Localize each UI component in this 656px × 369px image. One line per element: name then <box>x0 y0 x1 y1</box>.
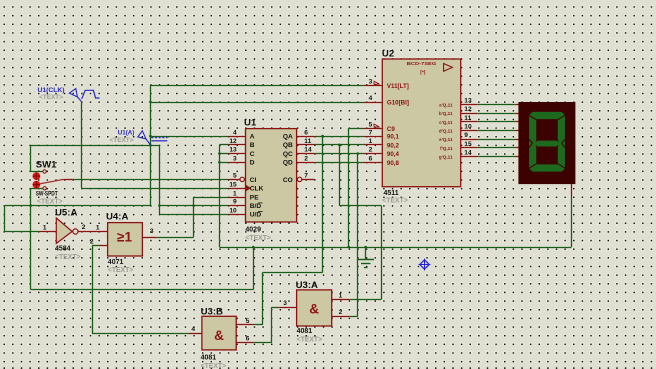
svg-text:<TEXT>: <TEXT> <box>39 94 63 101</box>
svg-text:13: 13 <box>464 98 472 105</box>
svg-text:C: C <box>250 151 255 158</box>
svg-text:90,2: 90,2 <box>387 142 400 149</box>
svg-text:e'Q,11: e'Q,11 <box>439 137 453 142</box>
svg-text:3: 3 <box>283 300 287 307</box>
svg-text:U3:B: U3:B <box>201 306 223 317</box>
svg-text:5: 5 <box>369 121 373 128</box>
svg-text:14: 14 <box>464 150 472 157</box>
svg-text:9: 9 <box>464 132 468 139</box>
svg-text:2: 2 <box>369 147 373 154</box>
svg-text:C9: C9 <box>387 126 395 133</box>
svg-text:4: 4 <box>369 95 373 102</box>
svg-text:2: 2 <box>82 224 86 231</box>
svg-text:U1(A): U1(A) <box>118 130 135 137</box>
svg-text:CI: CI <box>250 177 257 184</box>
svg-text:<TEXT>: <TEXT> <box>37 196 63 205</box>
svg-text:QA: QA <box>283 134 293 141</box>
svg-text:4: 4 <box>233 129 237 136</box>
svg-text:QC: QC <box>283 151 293 158</box>
svg-text:PE: PE <box>250 195 259 202</box>
svg-text:11: 11 <box>464 115 471 122</box>
svg-text:CO: CO <box>283 177 293 184</box>
svg-text:7: 7 <box>369 129 373 136</box>
svg-text:1: 1 <box>43 224 47 231</box>
svg-text:<TEXT>: <TEXT> <box>382 196 408 205</box>
svg-text:<TEXT>: <TEXT> <box>245 233 271 242</box>
svg-text:14: 14 <box>304 147 312 154</box>
svg-text:BCD-7SEG: BCD-7SEG <box>407 61 437 67</box>
svg-text:2: 2 <box>304 155 308 162</box>
svg-text:15: 15 <box>229 181 237 188</box>
svg-text:U/D: U/D <box>250 212 262 219</box>
svg-text:1: 1 <box>369 138 373 145</box>
svg-text:f'Q,11: f'Q,11 <box>440 146 453 151</box>
svg-text:QB: QB <box>283 142 293 149</box>
svg-text:G10[BI]: G10[BI] <box>387 100 409 107</box>
svg-text:a'Q,11: a'Q,11 <box>439 103 453 108</box>
svg-text:11: 11 <box>304 138 311 145</box>
svg-text:<TEXT>: <TEXT> <box>55 252 81 261</box>
svg-text:CLK: CLK <box>250 186 264 193</box>
svg-text:12: 12 <box>229 138 237 145</box>
svg-text:SW1: SW1 <box>36 159 57 170</box>
svg-text:U1: U1 <box>244 118 257 129</box>
svg-text:≥1: ≥1 <box>117 230 132 245</box>
svg-text:3: 3 <box>233 155 237 162</box>
svg-text:12: 12 <box>464 106 472 113</box>
svg-text:B: B <box>250 142 255 149</box>
svg-text:3: 3 <box>369 79 373 86</box>
svg-text:<TEXT>: <TEXT> <box>297 335 323 344</box>
svg-text:&: & <box>309 302 319 317</box>
svg-text:V11[LT]: V11[LT] <box>387 83 409 90</box>
svg-text:U2: U2 <box>382 49 394 60</box>
svg-text:7: 7 <box>304 173 308 180</box>
svg-text:&: & <box>214 328 224 343</box>
svg-text:6: 6 <box>369 155 373 162</box>
svg-text:d'Q,11: d'Q,11 <box>439 129 453 134</box>
svg-text:c'Q,11: c'Q,11 <box>439 120 453 125</box>
svg-text:6: 6 <box>246 336 250 343</box>
svg-text:2: 2 <box>339 309 343 316</box>
svg-text:1: 1 <box>233 190 237 197</box>
svg-text:U5:A: U5:A <box>55 208 77 219</box>
svg-text:90,4: 90,4 <box>387 151 400 158</box>
svg-text:90,1: 90,1 <box>387 134 400 141</box>
svg-text:10: 10 <box>464 124 472 131</box>
svg-text:13: 13 <box>229 147 237 154</box>
svg-text:9: 9 <box>233 199 237 206</box>
svg-text:<TEXT>: <TEXT> <box>110 137 134 144</box>
svg-text:U3:A: U3:A <box>296 280 318 291</box>
svg-text:5: 5 <box>246 318 250 325</box>
svg-text:4: 4 <box>191 326 195 333</box>
svg-text:1: 1 <box>96 224 100 231</box>
svg-text:10: 10 <box>229 207 237 214</box>
svg-text:g'Q,11: g'Q,11 <box>439 155 453 160</box>
svg-text:6: 6 <box>304 129 308 136</box>
svg-text:1: 1 <box>339 292 343 299</box>
svg-text:3: 3 <box>150 228 154 235</box>
svg-text:15: 15 <box>464 141 472 148</box>
svg-text:A: A <box>250 134 255 141</box>
svg-text:90,8: 90,8 <box>387 160 400 167</box>
svg-text:<TEXT>: <TEXT> <box>201 361 227 369</box>
svg-text:U4:A: U4:A <box>106 211 128 222</box>
svg-text:B/D: B/D <box>250 203 262 210</box>
svg-text:D: D <box>250 160 255 167</box>
svg-text:5: 5 <box>233 173 237 180</box>
svg-text:<TEXT>: <TEXT> <box>108 265 134 274</box>
svg-text:[*]: [*] <box>420 70 425 76</box>
svg-text:QD: QD <box>283 160 293 167</box>
svg-text:U1(CLK): U1(CLK) <box>38 87 65 94</box>
svg-text:b'Q,11: b'Q,11 <box>439 111 453 116</box>
svg-text:2: 2 <box>90 239 94 246</box>
